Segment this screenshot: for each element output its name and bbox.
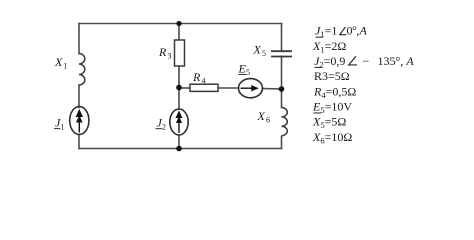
wire horizontal branch E5 to right rail — [263, 88, 282, 91]
node top of middle branch — [176, 21, 181, 26]
value list line 6: E5=10V — [312, 100, 352, 116]
svg-text:R4=0,5Ω: R4=0,5Ω — [313, 84, 356, 100]
wire right rail mid — [281, 57, 283, 108]
EMF source E5 — [239, 79, 263, 98]
wire bottom rail — [79, 148, 282, 150]
current source J2 — [170, 109, 188, 135]
inductor X1 — [79, 54, 85, 86]
capacitor X5 — [271, 51, 292, 56]
wire middle branch below J2 — [178, 135, 180, 149]
wire horizontal branch left of R4 — [179, 87, 190, 89]
value list line 2: X1=2Ω — [312, 39, 346, 55]
label J1 — [54, 116, 65, 132]
svg-text:X5=5Ω: X5=5Ω — [312, 115, 346, 131]
svg-text:0°,: 0°, — [347, 24, 360, 38]
svg-text:X1=2Ω: X1=2Ω — [312, 39, 346, 55]
wire right rail lower — [281, 137, 283, 149]
svg-text:X6=10Ω: X6=10Ω — [312, 130, 352, 146]
label E5 — [238, 61, 251, 77]
svg-text:R3=5Ω: R3=5Ω — [314, 69, 350, 83]
inductor X6 — [282, 108, 288, 136]
svg-text:4: 4 — [202, 77, 206, 86]
current source J1 — [70, 107, 89, 135]
wire horizontal branch R4 to E5 — [218, 87, 239, 89]
value list line 1: J1=1∠0°, A — [315, 24, 368, 40]
wire middle branch upper — [178, 24, 180, 41]
value list line 7: X5=5Ω — [312, 115, 346, 131]
svg-text:R: R — [158, 45, 167, 59]
node bottom of middle branch — [176, 146, 182, 152]
svg-text:5: 5 — [246, 68, 250, 77]
svg-text:3: 3 — [168, 52, 172, 61]
wire right rail upper — [281, 24, 283, 52]
svg-text:5: 5 — [262, 49, 266, 58]
value list line 8: X6=10Ω — [312, 130, 352, 146]
wire middle branch node to J2 — [178, 88, 180, 110]
wire top rail — [79, 23, 282, 25]
svg-text:R: R — [192, 70, 201, 84]
svg-text:1: 1 — [61, 123, 65, 132]
svg-text:X: X — [54, 55, 63, 69]
value list line 4: R3=5Ω — [314, 69, 350, 83]
svg-text:A: A — [359, 24, 368, 38]
svg-text:−: − — [363, 54, 370, 68]
svg-text:6: 6 — [266, 116, 270, 125]
wire left rail upper — [78, 24, 80, 54]
svg-text:135°, A: 135°, A — [378, 54, 415, 68]
svg-text:X: X — [257, 109, 266, 123]
wire left rail lower — [78, 135, 80, 149]
resistor R4 — [190, 84, 218, 91]
resistor R3 — [175, 40, 185, 66]
node right rail / E5 branch — [279, 86, 285, 92]
wire left rail mid — [78, 85, 80, 108]
wire middle branch between R3 and node — [178, 66, 180, 88]
node middle branch / R4 branch — [176, 85, 182, 91]
value list line 5: R4=0,5Ω — [313, 84, 356, 100]
svg-text:X: X — [253, 43, 262, 57]
svg-text:2: 2 — [162, 123, 166, 132]
svg-text:1: 1 — [64, 62, 68, 71]
label J2 — [156, 116, 167, 132]
value list line 3: J2=0,9∠−135°, A — [314, 54, 414, 70]
